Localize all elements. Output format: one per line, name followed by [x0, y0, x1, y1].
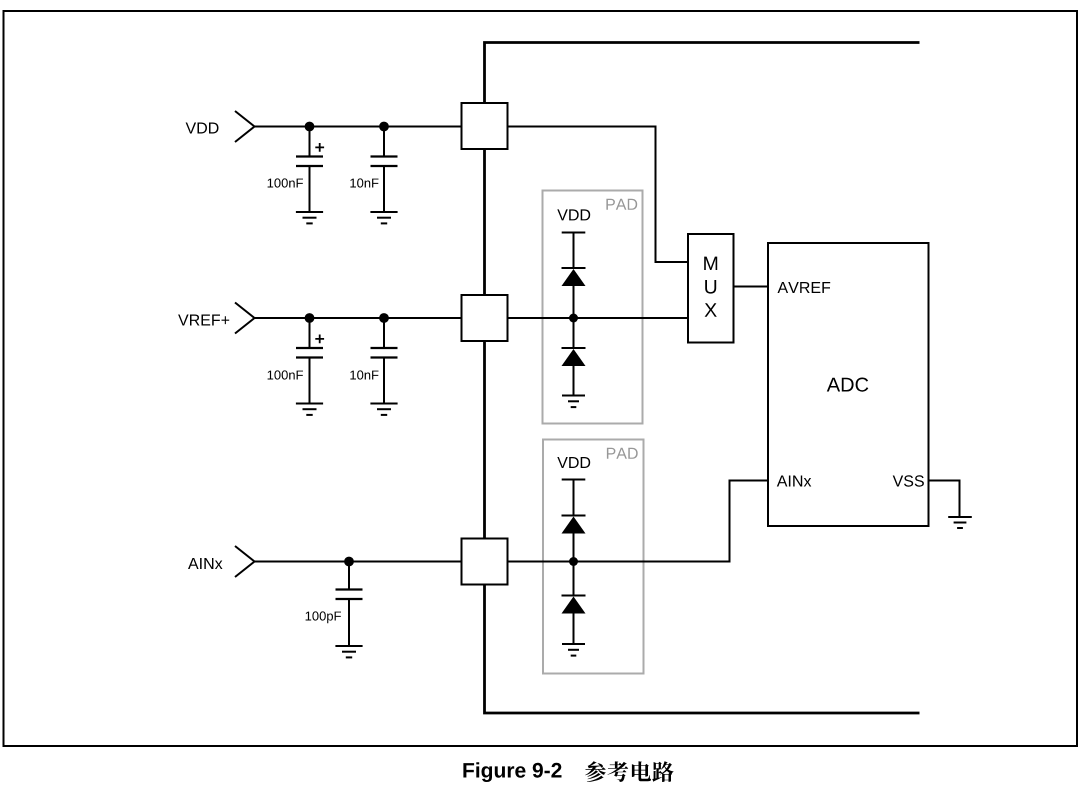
- value label 100pF: [306, 611, 341, 623]
- ground for capacitor C2 10nF: [370, 212, 397, 223]
- junction dot VREF-C4: [379, 313, 389, 323]
- value label 100nF: [268, 178, 303, 187]
- pin label AVREF: [778, 282, 831, 293]
- pad square P1 VDD: [462, 103, 508, 149]
- port AINx input chevron: [235, 546, 255, 577]
- wire D2 anode to ground: [573, 366, 575, 396]
- junction dot VDD-C1: [305, 122, 315, 132]
- diode D1 upper pad cell 1: [562, 268, 586, 286]
- ESD pad cell 1 outline: [543, 191, 643, 424]
- pad square P3 AINx: [462, 539, 508, 585]
- ground pad cell 1: [562, 396, 585, 408]
- ground pad cell 2: [562, 644, 585, 656]
- port VDD input chevron: [235, 111, 255, 142]
- diode D2 lower pad cell 1: [562, 348, 586, 366]
- capacitor C4 10nF: [371, 318, 398, 404]
- VDD supply stub pad cell 1: [562, 233, 586, 269]
- capacitor C3 100nF: [296, 318, 324, 404]
- junction dot VDD-C2: [379, 122, 389, 132]
- diode D4 lower pad cell 2: [562, 596, 586, 614]
- wire VREF+ row to MUX: [255, 317, 689, 319]
- caption CJK char 路: [652, 761, 673, 782]
- label MUX letter M: [704, 257, 717, 270]
- ground for capacitor C1 100nF: [296, 212, 323, 223]
- wire D4 anode to ground: [573, 614, 575, 645]
- wire VDD row right to MUX select: [508, 127, 689, 263]
- diode D3 upper pad cell 2: [562, 516, 586, 534]
- pad square P2 VREF+: [462, 295, 508, 341]
- value label 100nF: [268, 370, 303, 379]
- label PAD cell 1: [606, 199, 637, 210]
- ground for VSS: [948, 517, 972, 528]
- capacitor C1 100nF: [296, 127, 324, 213]
- ground for capacitor C4 10nF: [370, 404, 397, 415]
- capacitor C5 100pF: [336, 562, 363, 647]
- wire AINx row to ADC: [255, 481, 769, 562]
- value label 10nF: [350, 178, 378, 187]
- wire VSS to ground: [929, 481, 960, 518]
- label VDD input: [186, 123, 219, 134]
- caption CJK char 电: [632, 761, 651, 781]
- VDD supply stub pad cell 2: [562, 480, 586, 516]
- pin label AINx: [777, 476, 812, 487]
- caption CJK char 参: [585, 761, 606, 782]
- ground for capacitor C5 100pF: [335, 646, 362, 657]
- wire VDD supply bus rail: [485, 43, 920, 714]
- ADC U2 block: [768, 243, 929, 526]
- wire D3 anode to node: [573, 534, 575, 597]
- value label 10nF: [350, 370, 378, 379]
- pin label VSS: [893, 475, 924, 486]
- port VREF+ input chevron: [235, 303, 255, 334]
- multiplexer U1 MUX: [688, 234, 734, 343]
- ESD pad cell 2 outline: [543, 440, 644, 674]
- junction dot pad cell 2 node: [569, 557, 578, 566]
- label PAD cell 2: [607, 448, 638, 459]
- label ADC: [827, 378, 869, 392]
- wire VDD row left: [255, 126, 462, 128]
- ground for capacitor C3 100nF: [296, 404, 323, 415]
- wire D1 anode to node: [573, 286, 575, 348]
- wire MUX output to ADC AVREF: [734, 286, 769, 288]
- label VDD in pad cell 1: [557, 209, 590, 220]
- label MUX letter U: [705, 280, 716, 294]
- label VREF+ input: [178, 315, 229, 326]
- caption CJK char 考: [607, 761, 628, 782]
- junction dot pad cell 1 node: [569, 314, 578, 323]
- junction dot VREF-C3: [305, 313, 315, 323]
- label VDD in pad cell 2: [557, 457, 590, 468]
- label AINx input: [188, 558, 223, 569]
- capacitor C2 10nF: [371, 127, 398, 213]
- label MUX letter X: [705, 303, 717, 316]
- caption Figure 9-2: [463, 762, 561, 782]
- junction dot AINx-C5: [344, 557, 354, 567]
